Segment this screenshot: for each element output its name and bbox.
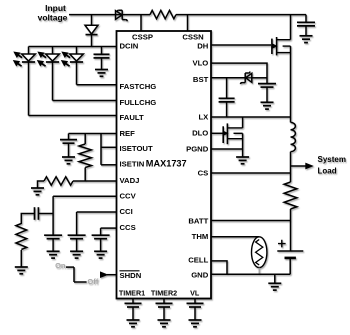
wire capacitor C2 to ground [101, 58, 103, 70]
capacitor C10 VL bypass [187, 303, 204, 307]
wire BST to bootstrap capacitor [226, 78, 228, 99]
wire BST [211, 77, 245, 79]
svg-text:CELL: CELL [188, 256, 208, 265]
wire resistor R4 to ground [20, 250, 22, 267]
wire DH gate drive [211, 44, 271, 46]
svg-text:System: System [318, 155, 346, 164]
transistor Q2 low-side MOSFET [223, 123, 243, 144]
svg-text:TIMER2: TIMER2 [151, 288, 177, 297]
wire LED FASTCHG indicator cathode [76, 62, 78, 85]
capacitor C7 CCS [92, 235, 110, 239]
wire capacitor C10 to ground [194, 307, 196, 320]
wire capacitor C11 to ground [266, 87, 268, 102]
wire resistor R3 to ground [38, 181, 45, 188]
wire ISETIN [101, 164, 117, 166]
wire THM [211, 236, 259, 238]
ground [268, 283, 281, 290]
svg-text:BST: BST [193, 75, 209, 84]
svg-text:DLO: DLO [192, 129, 208, 138]
wire GND rail [211, 273, 290, 275]
capacitor C1 input bypass [297, 22, 315, 26]
capacitor C11 VLO bypass [258, 84, 276, 88]
wire switch pole [73, 267, 75, 282]
wire VLO [211, 63, 267, 84]
resistor R3 VADJ divider lower [44, 177, 73, 185]
wire LED FULLCHG indicator cathode [52, 62, 54, 101]
wire Q1 drain to input rail [290, 15, 292, 40]
resistor R1 on input rail [150, 10, 176, 18]
wire VADJ [73, 180, 117, 182]
IC U1 MAX1737 package outline [117, 31, 212, 299]
diode D3 schottky BST bootstrap [241, 72, 252, 85]
svg-text:DCIN: DCIN [120, 41, 139, 50]
svg-text:FULLCHG: FULLCHG [120, 98, 157, 107]
svg-text:MAX1737: MAX1737 [146, 159, 187, 169]
wire ground stub [274, 274, 276, 283]
capacitor C9 TIMER2 [156, 303, 173, 307]
svg-text:ISETOUT: ISETOUT [120, 144, 153, 153]
transistor Q1 high-side MOSFET [272, 37, 291, 55]
svg-text:CSSN: CSSN [182, 33, 204, 42]
wire DLO gate drive [211, 132, 223, 134]
wire switch Off position [74, 281, 87, 283]
resistor R2 REF divider upper [79, 144, 91, 168]
svg-text:SHDN: SHDN [120, 271, 142, 280]
wire CCS [101, 227, 117, 229]
capacitor C4 CCV compensation series [35, 207, 39, 220]
wire CS [211, 172, 291, 174]
wire CCV [53, 195, 116, 197]
wire bootstrap capacitor to LX [226, 102, 228, 117]
wire DCIN rail to capacitor C2 [101, 47, 103, 55]
svg-text:PGND: PGND [186, 144, 209, 153]
svg-text:On: On [55, 261, 66, 270]
LED FASTCHG indicator [61, 52, 84, 67]
svg-text:GND: GND [191, 270, 209, 279]
ground [31, 188, 44, 195]
wire FAULT [29, 115, 117, 117]
wire LED FAULT indicator cathode [28, 62, 30, 116]
wire capacitor C9 to ground [163, 307, 165, 320]
wire REF to capacitor C3 [68, 134, 70, 140]
wire system load tap [291, 163, 314, 170]
wire rail to LED FULLCHG indicator [52, 47, 54, 55]
ground [70, 251, 83, 258]
svg-text:CCV: CCV [120, 191, 137, 200]
wire input rail [69, 14, 306, 16]
ground [236, 157, 249, 164]
wire capacitor C3 to ground [68, 143, 70, 157]
wire capacitor C6 to ground [76, 239, 78, 252]
wire Q2 source to ground [242, 133, 244, 157]
svg-text:voltage: voltage [38, 13, 68, 23]
wire rail to LED FASTCHG indicator [76, 47, 78, 55]
wire sense resistor to BATT [290, 209, 292, 251]
svg-text:DH: DH [197, 41, 209, 50]
resistor R5 current sense [284, 182, 297, 209]
wire diode cathode to DCIN rail [91, 35, 93, 47]
wire TIMER1 pin [132, 299, 134, 304]
resistor R4 CCV compensation [16, 224, 27, 250]
wire CCV comp series [38, 213, 53, 215]
battery BT1 plus sign [278, 240, 286, 248]
capacitor C5 CCV [44, 235, 62, 239]
wire CCI branch down [76, 212, 78, 235]
ground [94, 251, 107, 258]
ground [15, 267, 28, 274]
svg-text:CCI: CCI [120, 207, 133, 216]
wire input branch to diode [91, 15, 93, 26]
capacitor C6 CCI [68, 235, 86, 239]
wire ISETOUT [101, 146, 117, 148]
LED FAULT indicator [13, 52, 36, 67]
inductor L1 [291, 122, 296, 151]
svg-text:LX: LX [198, 113, 209, 122]
wire PGND [211, 148, 243, 150]
wire CSSP sense [140, 15, 142, 31]
wire battery negative to ground rail [289, 258, 291, 274]
wire thermistor to ground rail [258, 268, 260, 275]
wire CCV branch down [52, 196, 54, 235]
ground [62, 157, 75, 164]
ground [300, 36, 313, 43]
wire BST diode anode to VLO node [252, 77, 267, 79]
svg-text:CSSP: CSSP [132, 33, 153, 42]
wire CCI [77, 211, 117, 213]
capacitor C2 DCIN bypass [94, 54, 110, 58]
wire SHDN with arrowhead [100, 271, 117, 278]
wire rail to input capacitor [305, 15, 307, 23]
battery BT1 [277, 251, 303, 258]
wire capacitor C5 to ground [52, 239, 54, 252]
wire DCIN rail [29, 46, 117, 48]
ground [158, 320, 171, 327]
ground [95, 70, 108, 77]
svg-text:TIMER1: TIMER1 [119, 288, 145, 297]
wire inductor to output node [290, 152, 292, 182]
svg-text:ISETIN: ISETIN [120, 160, 145, 169]
svg-text:CCS: CCS [120, 223, 136, 232]
ground [189, 320, 202, 327]
svg-text:CS: CS [198, 169, 209, 178]
wire capacitor C8 to ground [132, 307, 134, 320]
svg-text:FAULT: FAULT [120, 113, 144, 122]
wire capacitor C1 to ground [305, 26, 307, 36]
wire switch On position [66, 266, 74, 268]
wire resistor R2 to VADJ [84, 168, 86, 182]
svg-text:REF: REF [120, 129, 136, 138]
svg-text:VLO: VLO [192, 58, 208, 67]
svg-text:VADJ: VADJ [120, 176, 140, 185]
capacitor C3 REF bypass [60, 140, 77, 144]
diode D2 schottky on input rail [116, 10, 128, 21]
wire CSSN sense [187, 15, 189, 31]
svg-text:BATT: BATT [188, 217, 208, 226]
wire capacitor C7 to ground [100, 239, 102, 252]
wire TIMER2 pin [163, 299, 165, 304]
svg-text:VL: VL [190, 288, 200, 297]
wire LX [211, 116, 291, 118]
wire Q1 source to LX node [290, 46, 292, 122]
diode D1 input reverse-protection [85, 25, 98, 34]
ground [127, 320, 140, 327]
wire REF to ISETOUT ISETIN tie [100, 134, 102, 165]
wire VL pin [194, 299, 196, 304]
ground [47, 251, 60, 258]
wire REF [69, 133, 117, 135]
wire REF to resistor R2 [84, 134, 86, 145]
capacitor C8 TIMER1 [125, 303, 142, 307]
wire CELL [211, 261, 227, 274]
wire capacitor C4 to resistor R4 [21, 214, 34, 225]
svg-text:FASTCHG: FASTCHG [120, 82, 157, 91]
wire BATT [211, 220, 291, 222]
wire rail to LED FAULT indicator [28, 47, 30, 55]
wire FASTCHG [77, 84, 117, 86]
wire FULLCHG [53, 100, 117, 102]
wire CCS branch down [100, 228, 102, 235]
LED FULLCHG indicator [37, 52, 60, 67]
svg-text:Load: Load [318, 166, 337, 175]
wire Q2 drain to LX [242, 117, 244, 128]
ground [261, 102, 274, 109]
capacitor C12 bootstrap BST-LX [219, 98, 235, 102]
svg-text:Off: Off [87, 277, 98, 286]
svg-text:THM: THM [192, 232, 209, 241]
thermistor RT1 [252, 237, 267, 268]
